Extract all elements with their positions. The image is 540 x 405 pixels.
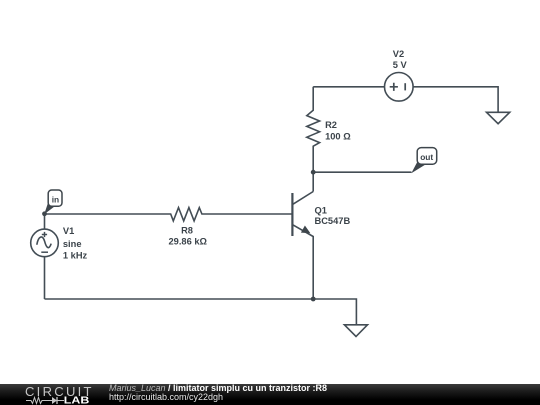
svg-text:out: out (420, 152, 433, 162)
svg-text:sine: sine (63, 239, 82, 249)
svg-text:100 Ω: 100 Ω (325, 131, 351, 141)
svg-text:V2: V2 (393, 49, 404, 59)
svg-text:V1: V1 (63, 226, 74, 236)
svg-text:Q1: Q1 (315, 206, 327, 216)
svg-text:5 V: 5 V (393, 60, 408, 70)
svg-text:LAB: LAB (64, 396, 90, 405)
svg-text:R2: R2 (325, 120, 337, 130)
svg-text:in: in (52, 194, 59, 204)
svg-text:BC547B: BC547B (315, 216, 351, 226)
svg-text:29.86 kΩ: 29.86 kΩ (169, 237, 208, 247)
svg-text:R8: R8 (181, 226, 193, 236)
svg-text:1 kHz: 1 kHz (63, 250, 88, 260)
